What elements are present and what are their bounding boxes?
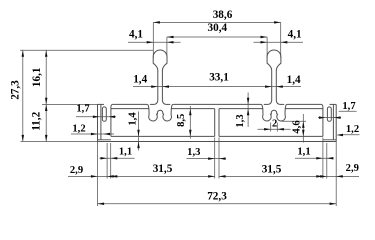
svg-text:11,2: 11,2 — [30, 111, 42, 130]
svg-text:8,5: 8,5 — [176, 114, 187, 127]
svg-text:4,6: 4,6 — [291, 120, 302, 133]
svg-text:2,9: 2,9 — [346, 163, 359, 174]
svg-text:1,1: 1,1 — [297, 147, 310, 158]
svg-text:1,2: 1,2 — [346, 124, 359, 135]
svg-text:38,6: 38,6 — [213, 9, 233, 21]
svg-text:31,5: 31,5 — [262, 164, 282, 176]
svg-text:27,3: 27,3 — [9, 80, 21, 100]
svg-text:16,1: 16,1 — [31, 67, 43, 87]
svg-text:1,4: 1,4 — [133, 74, 147, 86]
svg-text:30,4: 30,4 — [208, 22, 228, 34]
svg-text:4,1: 4,1 — [129, 28, 143, 40]
svg-text:4,1: 4,1 — [288, 28, 302, 40]
svg-text:1,3: 1,3 — [235, 114, 246, 127]
svg-text:1,3: 1,3 — [187, 147, 200, 158]
svg-text:2: 2 — [272, 118, 277, 129]
svg-text:1,7: 1,7 — [342, 101, 356, 112]
svg-text:2,9: 2,9 — [70, 165, 83, 176]
svg-text:72,3: 72,3 — [207, 190, 227, 202]
svg-text:1,2: 1,2 — [72, 124, 85, 135]
svg-text:1,7: 1,7 — [76, 104, 90, 115]
svg-text:31,5: 31,5 — [153, 163, 173, 175]
svg-text:1,4: 1,4 — [128, 112, 139, 126]
svg-text:33,1: 33,1 — [209, 72, 229, 84]
svg-text:1,1: 1,1 — [119, 146, 132, 157]
svg-text:1,4: 1,4 — [287, 74, 301, 86]
